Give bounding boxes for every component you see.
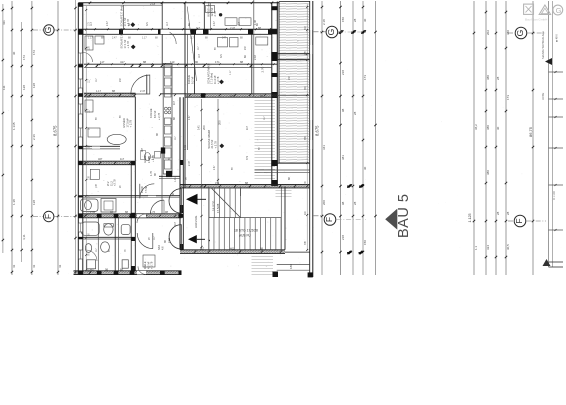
svg-text:30: 30 bbox=[363, 166, 367, 170]
svg-text:41: 41 bbox=[32, 264, 36, 268]
svg-text:◆ 48 0: ◆ 48 0 bbox=[555, 34, 559, 42]
svg-text:F: F bbox=[324, 217, 334, 222]
svg-text:200: 200 bbox=[202, 125, 206, 130]
svg-text:2.47: 2.47 bbox=[140, 89, 146, 93]
svg-text:2.0 M²: 2.0 M² bbox=[148, 156, 151, 163]
svg-text:1.125: 1.125 bbox=[468, 214, 472, 223]
svg-text:30,5: 30,5 bbox=[506, 244, 510, 250]
svg-text:2.70: 2.70 bbox=[261, 66, 265, 72]
svg-text:341: 341 bbox=[322, 145, 326, 150]
svg-text:NEUBAU WOHNANLAGE: NEUBAU WOHNANLAGE bbox=[542, 31, 545, 59]
svg-text:1.1: 1.1 bbox=[474, 245, 478, 250]
svg-text:200: 200 bbox=[218, 120, 222, 125]
svg-text:88: 88 bbox=[240, 60, 244, 64]
svg-text:150: 150 bbox=[341, 17, 345, 22]
svg-text:2.47: 2.47 bbox=[106, 21, 109, 26]
svg-text:98: 98 bbox=[341, 201, 345, 205]
svg-text:1.01: 1.01 bbox=[184, 145, 187, 150]
svg-text:141: 141 bbox=[197, 125, 201, 130]
svg-text:2.47: 2.47 bbox=[230, 26, 236, 30]
svg-text:2.36: 2.36 bbox=[90, 210, 96, 214]
svg-text:247: 247 bbox=[222, 37, 227, 40]
svg-text:36,2: 36,2 bbox=[474, 124, 478, 130]
svg-text:117: 117 bbox=[238, 22, 241, 26]
svg-text:28: 28 bbox=[353, 201, 357, 205]
svg-text:88: 88 bbox=[143, 60, 147, 64]
svg-text:173: 173 bbox=[506, 95, 510, 100]
svg-text:98: 98 bbox=[341, 108, 345, 112]
svg-text:8.6 M²: 8.6 M² bbox=[153, 111, 157, 118]
svg-text:+ 2.78: + 2.78 bbox=[152, 155, 155, 162]
svg-text:17,5/28: 17,5/28 bbox=[216, 203, 220, 213]
svg-text:218: 218 bbox=[341, 70, 345, 75]
svg-text:200: 200 bbox=[322, 200, 326, 205]
svg-text:Bau Plan GmbH: Bau Plan GmbH bbox=[525, 18, 547, 22]
svg-text:2.01: 2.01 bbox=[168, 238, 171, 243]
svg-text:28: 28 bbox=[496, 211, 500, 215]
svg-text:380: 380 bbox=[486, 170, 490, 175]
svg-text:401: 401 bbox=[230, 247, 235, 251]
svg-text:1.76: 1.76 bbox=[150, 210, 156, 214]
svg-text:8,675: 8,675 bbox=[53, 125, 58, 136]
svg-text:8,675: 8,675 bbox=[314, 125, 319, 136]
svg-text:1.38: 1.38 bbox=[254, 20, 257, 25]
svg-text:F: F bbox=[43, 214, 53, 219]
svg-text:41: 41 bbox=[58, 264, 62, 268]
svg-text:1.76: 1.76 bbox=[150, 171, 153, 176]
svg-text:28: 28 bbox=[353, 18, 357, 22]
svg-text:117: 117 bbox=[190, 37, 194, 40]
svg-text:2.36: 2.36 bbox=[32, 134, 36, 140]
svg-text:381: 381 bbox=[341, 155, 345, 160]
svg-text:2.47: 2.47 bbox=[189, 115, 191, 120]
svg-text:1.17: 1.17 bbox=[230, 70, 232, 75]
svg-text:90: 90 bbox=[195, 60, 199, 64]
svg-text:M 1:100: M 1:100 bbox=[553, 191, 556, 200]
svg-text:2.47: 2.47 bbox=[188, 161, 191, 166]
svg-text:117: 117 bbox=[166, 22, 169, 26]
svg-text:+ 2.78: + 2.78 bbox=[150, 261, 154, 269]
svg-text:KOCHE: KOCHE bbox=[149, 108, 153, 118]
svg-text:371: 371 bbox=[215, 181, 220, 185]
svg-text:G: G bbox=[326, 29, 336, 36]
svg-text:28: 28 bbox=[496, 76, 500, 80]
svg-text:7.5 M²: 7.5 M² bbox=[145, 186, 148, 193]
svg-text:371: 371 bbox=[146, 21, 149, 26]
svg-text:AUFZUG: AUFZUG bbox=[194, 215, 198, 228]
svg-text:30: 30 bbox=[12, 51, 16, 55]
svg-text:30: 30 bbox=[363, 18, 367, 22]
svg-text:411: 411 bbox=[2, 20, 6, 25]
svg-text:117: 117 bbox=[120, 157, 125, 161]
svg-text:G: G bbox=[43, 27, 53, 34]
svg-text:9.2 M²: 9.2 M² bbox=[190, 77, 194, 84]
svg-text:+ 2.78: + 2.78 bbox=[158, 112, 161, 120]
svg-text:417: 417 bbox=[120, 60, 125, 64]
svg-text:18 STG 17,5/28: 18 STG 17,5/28 bbox=[234, 229, 258, 233]
svg-text:371: 371 bbox=[220, 53, 223, 58]
svg-text:172: 172 bbox=[22, 55, 26, 60]
svg-text:+ 2.78: + 2.78 bbox=[129, 119, 133, 127]
svg-text:+ 2.78: + 2.78 bbox=[126, 41, 130, 49]
svg-text:FLUR: FLUR bbox=[140, 186, 144, 193]
svg-text:172: 172 bbox=[32, 50, 36, 55]
svg-text:GARD: GARD bbox=[144, 156, 147, 163]
svg-text:G: G bbox=[556, 6, 562, 15]
svg-text:117: 117 bbox=[198, 54, 201, 58]
svg-text:117: 117 bbox=[200, 247, 205, 251]
svg-text:2.18: 2.18 bbox=[322, 19, 326, 25]
svg-text:18 STG: 18 STG bbox=[212, 200, 216, 211]
svg-text:117: 117 bbox=[174, 221, 177, 226]
svg-text:1.17: 1.17 bbox=[142, 37, 147, 40]
svg-text:86,75: 86,75 bbox=[528, 126, 533, 137]
svg-text:380: 380 bbox=[486, 125, 490, 130]
svg-text:202: 202 bbox=[486, 30, 490, 35]
svg-text:371: 371 bbox=[246, 155, 249, 160]
svg-text:173: 173 bbox=[363, 75, 367, 80]
svg-text:117: 117 bbox=[246, 125, 249, 130]
svg-text:18 WE: 18 WE bbox=[542, 92, 545, 100]
svg-text:380: 380 bbox=[506, 30, 510, 35]
svg-text:2.18: 2.18 bbox=[150, 2, 156, 6]
svg-text:F: F bbox=[514, 218, 524, 223]
svg-text:218: 218 bbox=[341, 235, 345, 240]
svg-text:2.47: 2.47 bbox=[112, 37, 117, 40]
svg-text:4,11: 4,11 bbox=[22, 234, 26, 240]
svg-text:138: 138 bbox=[32, 200, 36, 205]
svg-text:180: 180 bbox=[289, 264, 293, 269]
svg-text:G: G bbox=[515, 30, 525, 37]
svg-text:1.135: 1.135 bbox=[12, 122, 16, 130]
svg-text:111: 111 bbox=[2, 85, 6, 90]
svg-text:28: 28 bbox=[506, 211, 510, 215]
svg-text:2.18: 2.18 bbox=[254, 55, 257, 60]
svg-text:1.01: 1.01 bbox=[174, 177, 177, 182]
svg-text:467: 467 bbox=[141, 147, 144, 152]
svg-text:1.17: 1.17 bbox=[96, 89, 102, 93]
svg-text:117: 117 bbox=[173, 100, 176, 105]
svg-text:28: 28 bbox=[353, 111, 357, 115]
svg-text:+ 2.78: + 2.78 bbox=[216, 76, 220, 84]
svg-text:171: 171 bbox=[215, 60, 220, 64]
svg-text:467: 467 bbox=[98, 157, 103, 161]
svg-text:BAU 5: BAU 5 bbox=[396, 194, 412, 238]
svg-text:1.38: 1.38 bbox=[12, 199, 16, 205]
svg-text:324: 324 bbox=[486, 245, 490, 250]
svg-text:2.78: 2.78 bbox=[213, 11, 217, 17]
svg-text:380: 380 bbox=[486, 75, 490, 80]
svg-text:467: 467 bbox=[90, 268, 95, 272]
svg-text:128: 128 bbox=[22, 85, 26, 90]
svg-text:30: 30 bbox=[496, 126, 500, 130]
svg-text:4.6: 4.6 bbox=[161, 246, 164, 250]
svg-text:1.17: 1.17 bbox=[88, 37, 93, 40]
svg-text:150: 150 bbox=[363, 240, 367, 245]
svg-text:AUS FU: AUS FU bbox=[239, 234, 251, 238]
svg-text:128: 128 bbox=[32, 83, 36, 88]
svg-text:2.47: 2.47 bbox=[214, 165, 216, 170]
svg-text:+2.78: +2.78 bbox=[113, 179, 117, 186]
svg-text:41: 41 bbox=[12, 264, 16, 268]
svg-text:2.47: 2.47 bbox=[213, 21, 216, 26]
